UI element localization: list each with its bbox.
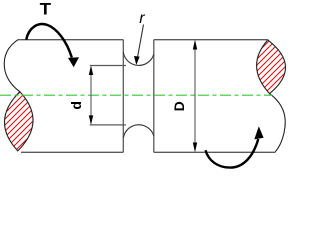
break line left (S-curve to shaft top edge) (4, 39, 20, 91)
arrowhead d bottom (89, 115, 93, 125)
svg-text:r: r (139, 10, 145, 27)
hatched broken section left (red hatching) (0, 30, 46, 180)
centerline (green dash-dot) (0, 94, 272, 96)
arrowhead D top (193, 40, 197, 50)
hatched broken section right (red hatching) (240, 0, 300, 130)
leader arrowhead r (134, 56, 140, 65)
groove fillet arc top (radius r) (123, 52, 154, 65)
svg-text:T: T (40, 0, 51, 19)
svg-text:D: D (172, 101, 187, 111)
groove left wall (122, 40, 124, 153)
groove root line bottom (d extension) (90, 124, 126, 126)
arrowhead D bottom (193, 143, 197, 153)
break line right (S-curve to shaft bottom edge) (270, 94, 286, 152)
groove fillet arc bottom (123, 125, 154, 138)
leader line r (137, 25, 143, 59)
arrowhead d top (89, 66, 93, 76)
torque arrow bottom right (curved, arrowhead up) (206, 139, 259, 168)
svg-text:d: d (68, 101, 84, 110)
groove right wall (153, 40, 155, 153)
groove root line top (d extension) (90, 65, 126, 67)
shaft top edge right segment (154, 39, 268, 41)
lens outline right (break section boundary) (257, 40, 286, 94)
torque arrow T (top left, curved, arrowhead down) (26, 24, 72, 57)
shaft bottom edge right segment (154, 151, 276, 153)
shaft top edge left segment (18, 39, 123, 41)
dimension line D (194, 42, 196, 151)
dimension line d (90, 67, 92, 124)
shaft bottom edge left segment (21, 151, 123, 153)
lens outline left (break section boundary) (4, 92, 33, 151)
